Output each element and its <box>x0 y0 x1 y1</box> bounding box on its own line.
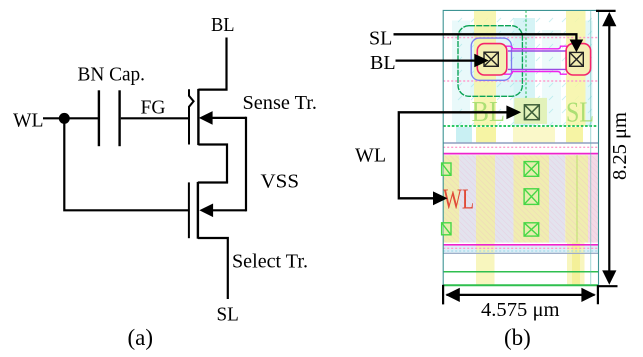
WL poly hatched region <box>443 155 598 242</box>
teal frame left/top/right <box>443 10 598 286</box>
svg-text:Sense Tr.: Sense Tr. <box>243 92 318 114</box>
purple trace neck inner lines <box>508 51 566 69</box>
arrow down <box>602 270 616 284</box>
capacitor C (BN Cap.) plates <box>99 90 120 146</box>
svg-text:VSS: VSS <box>261 171 300 193</box>
inner teal vertical line <box>590 10 592 285</box>
cyan fill inside green guard ring <box>459 26 523 96</box>
bottom strips <box>443 243 598 286</box>
svg-text:WL: WL <box>13 110 44 132</box>
cyan tick texture over top section <box>452 14 592 126</box>
svg-text:SL: SL <box>566 97 594 128</box>
gray-blue line <box>443 142 598 144</box>
magenta line (poly top) <box>443 153 598 155</box>
svg-text:(b): (b) <box>504 325 531 350</box>
wire WL branch down to select gate <box>64 118 189 210</box>
red contact surround right <box>566 44 591 75</box>
green dashed boundary line <box>443 125 598 127</box>
arrow right <box>581 288 595 302</box>
magenta line (poly bottom) <box>443 244 598 246</box>
pink dotted line top A <box>443 37 598 39</box>
dimension line <box>447 294 595 296</box>
cyan band right (top section) <box>586 21 593 127</box>
svg-text:SL: SL <box>369 27 392 49</box>
poly contact row1 left (clipped) <box>442 163 451 175</box>
contact right (black X box) <box>570 52 584 66</box>
svg-text:4.575 μm: 4.575 μm <box>481 299 560 321</box>
transistor Select Tr source stub <box>198 238 228 299</box>
svg-text:WL: WL <box>443 184 474 215</box>
cyan band center (top section) <box>514 18 536 126</box>
arrow left <box>445 288 459 302</box>
annotation arrow SL (to right contact) <box>394 34 584 52</box>
layout cell background sections <box>452 11 593 144</box>
yellow band 2 bottom <box>567 243 585 286</box>
yellow band 1 bottom <box>476 243 495 286</box>
green contacts in poly region: center column <box>442 162 539 237</box>
annotation bracket WL <box>399 105 521 205</box>
green line lower <box>443 271 598 273</box>
yellow band 1 (top section) <box>474 11 496 127</box>
tick bottom L-shape <box>598 286 618 304</box>
red contact surround left <box>477 44 507 75</box>
middle strip pale yellow wide band <box>513 127 555 143</box>
tick top <box>596 10 616 12</box>
poly contact row2 center <box>524 189 539 205</box>
transistor Select Tr gate line <box>188 182 190 238</box>
transistor Select Tr body wire <box>206 209 246 211</box>
cyan band left (top section) <box>452 21 470 127</box>
annotation arrow BL (to left contact) <box>396 54 489 68</box>
yellow band 2 (top section) <box>566 11 586 127</box>
middle strip cyan band <box>456 127 472 143</box>
green guard ring (dashed rounded rect) <box>458 26 522 97</box>
hatch diagonal texture <box>443 155 598 242</box>
horizontal layer lines <box>443 38 598 286</box>
pink dotted line bottom <box>443 247 598 249</box>
poly contact row3 left (clipped) <box>442 223 451 235</box>
pink dotted line mid <box>443 146 598 148</box>
dimension line <box>608 25 610 272</box>
transistor Sense Tr channel line <box>197 89 199 145</box>
arrowhead to middle contact <box>506 105 521 119</box>
magenta trace neck outer lines <box>504 46 567 74</box>
transistor Select Tr channel line <box>197 182 199 239</box>
svg-text:BL: BL <box>370 52 396 74</box>
wire WL to capacitor <box>43 117 100 119</box>
pink dotted line top B <box>443 80 598 82</box>
svg-text:BL: BL <box>211 14 235 36</box>
transistor Sense Tr gate line with floating-gate break <box>189 89 194 144</box>
transistor Select Tr drain stub <box>198 181 228 183</box>
middle strip yellow band 1 <box>476 127 496 143</box>
green dashed vertical line <box>525 10 527 98</box>
transistor Sense Tr drain stub <box>198 38 226 90</box>
svg-text:FG: FG <box>141 97 166 119</box>
gray-blue line bottom <box>443 252 598 254</box>
svg-text:BN Cap.: BN Cap. <box>78 64 146 86</box>
wire VSS vertical <box>245 117 247 212</box>
transistor Sense Tr body wire <box>206 117 246 119</box>
arrowhead to WL text <box>433 191 448 205</box>
green bottom boundary <box>443 284 598 286</box>
poly contact row3 center <box>524 223 539 236</box>
middle contact (dark green X box) <box>524 105 539 120</box>
svg-text:8.25 μm: 8.25 μm <box>609 112 631 180</box>
junction dot on WL node <box>59 113 70 124</box>
svg-text:SL: SL <box>217 304 239 326</box>
cell frame <box>443 10 598 286</box>
middle strip yellow band 2 <box>566 127 583 143</box>
hatch base bands <box>443 155 459 242</box>
blue metal rounded rect <box>471 38 511 80</box>
wire FG (cap to sense gate) <box>121 117 190 119</box>
poly contact row1 center <box>524 162 539 177</box>
transistor Select Tr body arrowhead <box>199 204 213 218</box>
pale blue strip <box>443 246 598 253</box>
dimension: horizontal 4.575 um <box>443 285 596 321</box>
svg-text:(a): (a) <box>128 325 154 350</box>
transistor Sense Tr source stub <box>198 145 227 183</box>
svg-text:WL: WL <box>355 145 386 167</box>
tick left <box>442 285 444 305</box>
thin green vertical line in poly region <box>576 155 578 242</box>
arrow up <box>602 12 616 26</box>
dimension: vertical 8.25 um <box>596 11 631 304</box>
cyan dashed line in blue strip <box>443 250 598 252</box>
contact left (black X box) <box>484 52 498 66</box>
transistor Sense Tr body arrowhead <box>199 111 213 125</box>
green contact patch (middle) <box>514 98 547 124</box>
svg-text:Select Tr.: Select Tr. <box>232 251 308 273</box>
bright sub-band right <box>572 243 580 286</box>
cyan band mid-right (top section) <box>542 30 561 126</box>
